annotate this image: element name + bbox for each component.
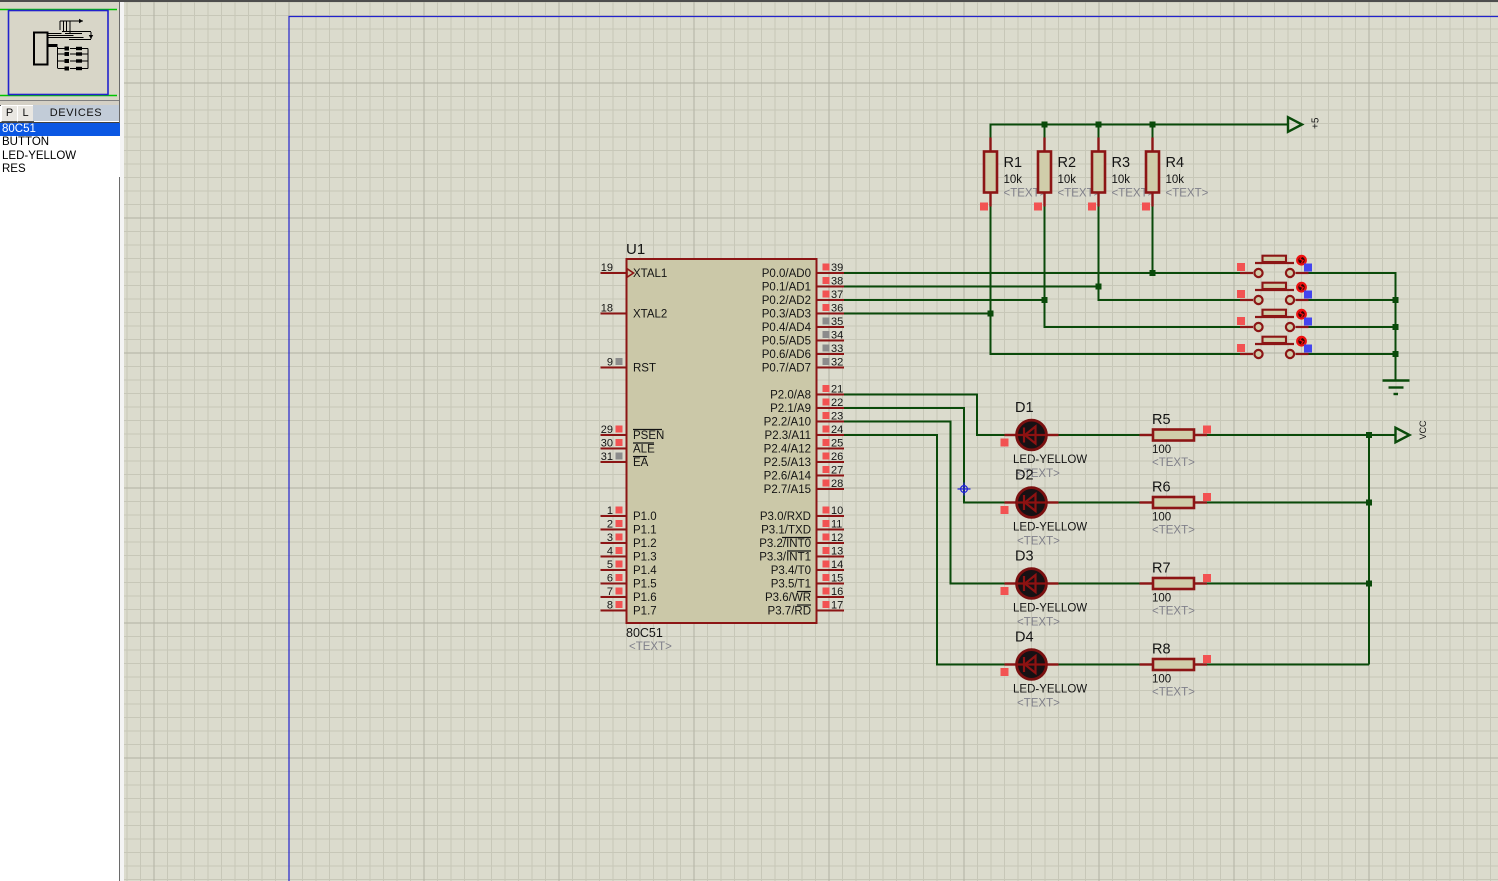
pin 26 marker square	[823, 453, 830, 460]
svg-text:P0.2/AD2: P0.2/AD2	[762, 295, 811, 307]
resistor R6	[1140, 497, 1208, 508]
svg-text:10k: 10k	[1166, 174, 1185, 186]
svg-text:P2.7/A15: P2.7/A15	[764, 484, 811, 496]
wire button3 output to ground bus	[1309, 326, 1396, 328]
svg-text:38: 38	[831, 276, 843, 288]
resistor R2	[1038, 138, 1051, 207]
LED D3	[1005, 569, 1059, 599]
pin 13 marker square	[823, 547, 830, 554]
pin 31 (EA) stub	[601, 461, 627, 463]
resistor R6 origin marker	[1203, 493, 1211, 501]
pin 29 marker square	[616, 426, 623, 433]
pin 21 (P2.0/A8) stub	[817, 394, 845, 396]
pin 4 (P1.3) stub	[601, 556, 627, 558]
resistor R3	[1092, 138, 1105, 207]
wire D1 to R5	[1059, 434, 1140, 436]
pin 26 (P2.5/A13) stub	[817, 461, 845, 463]
wire P0.2 pin37 to R2 column	[844, 299, 1045, 301]
svg-text:R7: R7	[1152, 561, 1171, 577]
button 4	[1240, 337, 1309, 358]
junction at (990.5,313.5)	[988, 311, 994, 317]
pin 30 marker square	[616, 439, 623, 446]
junction at (1395.5,354)	[1393, 351, 1399, 357]
pin 23 (P2.2/A10) stub	[817, 421, 845, 423]
svg-text:P3.2/INT0: P3.2/INT0	[759, 538, 811, 550]
svg-text:13: 13	[831, 546, 843, 558]
LED D1	[1005, 420, 1059, 450]
button 3 origin marker	[1237, 317, 1245, 325]
svg-text:VCC: VCC	[1418, 420, 1428, 440]
svg-text:2: 2	[607, 519, 613, 531]
svg-text:3: 3	[607, 532, 613, 544]
junction at (1395.5,300)	[1393, 297, 1399, 303]
resistor R8	[1140, 659, 1208, 670]
LED D2 origin marker	[1001, 506, 1009, 514]
svg-text:P1.4: P1.4	[633, 565, 657, 577]
button 2 node marker (blue)	[1304, 291, 1312, 299]
svg-text:30: 30	[601, 438, 613, 450]
pin 2 (P1.1) stub	[601, 529, 627, 531]
pin 34 marker square	[823, 331, 830, 338]
pin 29 (PSEN) stub	[601, 434, 627, 436]
svg-text:XTAL2: XTAL2	[633, 309, 667, 321]
wire D4 to R8	[1059, 664, 1140, 666]
pin 39 (P0.0/AD0) stub	[817, 272, 845, 274]
svg-text:6: 6	[607, 573, 613, 585]
svg-text:<TEXT>: <TEXT>	[1152, 457, 1195, 469]
svg-text:<TEXT>: <TEXT>	[1017, 698, 1060, 710]
pin 24 marker square	[823, 426, 830, 433]
wire VCC bus to VCC arrow	[1369, 434, 1396, 436]
pin 17 (P3.7/RD) stub	[817, 610, 845, 612]
svg-text:D3: D3	[1015, 549, 1034, 565]
svg-text:XTAL1: XTAL1	[633, 268, 667, 280]
svg-text:11: 11	[831, 519, 842, 531]
button 2 actuator star	[1297, 283, 1306, 292]
pin 16 marker square	[823, 588, 830, 595]
pin 11 (P3.1/TXD) stub	[817, 529, 845, 531]
wire button2 output to ground bus	[1309, 299, 1396, 301]
pin 16 (P3.6/WR) stub	[817, 596, 845, 598]
pin 9 marker square	[616, 358, 623, 365]
device list: LED-YELLOW	[0, 150, 121, 163]
svg-text:P1.2: P1.2	[633, 538, 657, 550]
svg-text:39: 39	[831, 262, 843, 274]
svg-text:P3.3/INT1: P3.3/INT1	[759, 552, 811, 564]
svg-text:P3.7/RD: P3.7/RD	[768, 606, 811, 618]
resistor R4 origin marker	[1142, 203, 1150, 211]
schematic overview preview window	[0, 2, 119, 100]
pin 18 (XTAL2) stub	[601, 313, 627, 315]
editor crosshair cursor	[958, 483, 971, 496]
svg-text:31: 31	[601, 451, 613, 463]
resistor R1	[984, 138, 997, 207]
svg-text:P2.4/A12: P2.4/A12	[764, 444, 811, 456]
svg-text:28: 28	[831, 478, 843, 490]
svg-text:37: 37	[831, 289, 843, 301]
svg-text:P0.6/AD6: P0.6/AD6	[762, 349, 811, 361]
pin 31 marker square	[616, 453, 623, 460]
svg-text:25: 25	[831, 438, 843, 450]
svg-text:<TEXT>: <TEXT>	[1152, 687, 1195, 699]
wire P0.0 pin39 to button1	[844, 272, 1240, 274]
device list: BUTTON	[0, 136, 121, 149]
pin 39 marker square	[823, 264, 830, 271]
wire D2 to R6	[1059, 502, 1140, 504]
wire P2.1 pin22 to D2	[844, 408, 1005, 503]
svg-text:R1: R1	[1004, 155, 1023, 171]
junction at (1369,435)	[1366, 432, 1372, 438]
wire VCC bus vertical	[1368, 435, 1370, 665]
button 1 actuator star	[1297, 256, 1306, 265]
svg-text:P3.4/T0: P3.4/T0	[771, 565, 811, 577]
pin 17 marker square	[823, 601, 830, 608]
svg-text:100: 100	[1152, 593, 1171, 605]
pin 28 (P2.7/A15) stub	[817, 488, 845, 490]
svg-text:<TEXT>: <TEXT>	[1152, 525, 1195, 537]
wire R3 bottom to pin38 junction to button2 row	[1099, 207, 1241, 301]
pin 9 (RST) stub	[601, 367, 627, 369]
svg-text:P0.7/AD7: P0.7/AD7	[762, 363, 811, 375]
pin 34 (P0.5/AD5) stub	[817, 340, 845, 342]
svg-text:80C51: 80C51	[626, 626, 663, 640]
pin 33 (P0.6/AD6) stub	[817, 353, 845, 355]
svg-text:100: 100	[1152, 444, 1171, 456]
resistor R1 origin marker	[980, 203, 988, 211]
button 2 origin marker	[1237, 290, 1245, 298]
pin 5 marker square	[616, 561, 623, 568]
pin 1 (P1.0) stub	[601, 515, 627, 517]
junction at (1098.5,286.5)	[1096, 284, 1102, 290]
svg-text:21: 21	[831, 384, 843, 396]
L button	[17, 105, 34, 122]
P button	[1, 105, 18, 122]
LED D1 origin marker	[1001, 439, 1009, 447]
svg-text:12: 12	[831, 532, 843, 544]
wire R5 to VCC bus	[1207, 434, 1369, 436]
resistor R5 origin marker	[1203, 426, 1211, 434]
pin 10 (P3.0/RXD) stub	[817, 515, 845, 517]
svg-text:P2.3/A11: P2.3/A11	[765, 430, 811, 442]
svg-text:R6: R6	[1152, 480, 1171, 496]
svg-text:10k: 10k	[1058, 174, 1077, 186]
LED D4	[1005, 650, 1059, 680]
resistor R7	[1140, 578, 1208, 589]
svg-text:7: 7	[607, 586, 613, 598]
wire R6 to VCC bus	[1207, 502, 1369, 504]
wire R2 bottom to pin37 junction to button3 row	[1045, 207, 1241, 328]
svg-text:24: 24	[831, 424, 843, 436]
pin 5 (P1.4) stub	[601, 569, 627, 571]
preview blue sheet frame	[9, 11, 109, 95]
svg-text:P1.0: P1.0	[633, 511, 657, 523]
pin 1 marker square	[616, 507, 623, 514]
power symbol VCC	[1396, 428, 1410, 443]
pin 12 marker square	[823, 534, 830, 541]
svg-text:14: 14	[831, 559, 843, 571]
svg-text:D4: D4	[1015, 630, 1034, 646]
svg-text:P0.4/AD4: P0.4/AD4	[762, 322, 812, 334]
device list: RES	[0, 163, 121, 176]
button 1 origin marker	[1237, 263, 1245, 271]
resistor R2 origin marker	[1034, 203, 1042, 211]
pin 3 marker square	[616, 534, 623, 541]
pin 35 marker square	[823, 318, 830, 325]
pin 15 marker square	[823, 574, 830, 581]
button 4 node marker (blue)	[1304, 345, 1312, 353]
svg-text:4: 4	[607, 546, 613, 558]
button 1 node marker (blue)	[1304, 264, 1312, 272]
wire P0.3 pin36 to R1 column	[844, 313, 991, 315]
button 4 origin marker	[1237, 344, 1245, 352]
left object selector panel	[0, 0, 120, 881]
pin 13 (P3.3/INT1) stub	[817, 556, 845, 558]
svg-text:LED-YELLOW: LED-YELLOW	[1013, 454, 1087, 466]
svg-text:P3.6/WR: P3.6/WR	[765, 592, 811, 604]
pin 23 marker square	[823, 412, 830, 419]
wire R1 bottom to pin36 junction to button4 row	[991, 207, 1241, 355]
svg-text:LED-YELLOW: LED-YELLOW	[1013, 522, 1087, 534]
pin 25 (P2.4/A12) stub	[817, 448, 845, 450]
LED D2	[1005, 488, 1059, 518]
pin 14 marker square	[823, 561, 830, 568]
pin 27 marker square	[823, 466, 830, 473]
pin 6 (P1.5) stub	[601, 583, 627, 585]
pin 15 (P3.5/T1) stub	[817, 583, 845, 585]
pin 14 (P3.4/T0) stub	[817, 569, 845, 571]
junction at (1098.5,124.5)	[1096, 122, 1102, 128]
button 1	[1240, 256, 1309, 277]
button 4 actuator star	[1297, 337, 1306, 346]
button 3 node marker (blue)	[1304, 318, 1312, 326]
svg-text:P1.1: P1.1	[633, 525, 657, 537]
pin 32 (P0.7/AD7) stub	[817, 367, 845, 369]
svg-text:<TEXT>: <TEXT>	[1152, 606, 1195, 618]
svg-text:100: 100	[1152, 512, 1171, 524]
resistor R5	[1140, 430, 1208, 441]
svg-text:U1: U1	[626, 241, 645, 258]
resistor R3 origin marker	[1088, 203, 1096, 211]
wire P2.0 pin21 to D1	[844, 395, 1005, 436]
pin 22 (P2.1/A9) stub	[817, 407, 845, 409]
svg-text:10k: 10k	[1112, 174, 1131, 186]
pin 6 marker square	[616, 574, 623, 581]
svg-text:35: 35	[831, 316, 843, 328]
pin 28 marker square	[823, 480, 830, 487]
svg-text:<TEXT>: <TEXT>	[629, 641, 672, 653]
pin 30 (ALE) stub	[601, 448, 627, 450]
svg-text:LED-YELLOW: LED-YELLOW	[1013, 684, 1087, 696]
pin 3 (P1.2) stub	[601, 542, 627, 544]
svg-text:23: 23	[831, 411, 843, 423]
pin 2 marker square	[616, 520, 623, 527]
svg-text:19: 19	[601, 262, 613, 274]
svg-text:P3.0/RXD: P3.0/RXD	[760, 511, 811, 523]
wire R3 top stub	[1098, 125, 1100, 138]
svg-text:9: 9	[607, 357, 613, 369]
svg-text:17: 17	[831, 600, 843, 612]
pin 35 (P0.4/AD4) stub	[817, 326, 845, 328]
pin 22 marker square	[823, 399, 830, 406]
wire D3 to R7	[1059, 583, 1140, 585]
svg-text:LED-YELLOW: LED-YELLOW	[1013, 603, 1087, 615]
pin 12 (P3.2/INT0) stub	[817, 542, 845, 544]
pin 11 marker square	[823, 520, 830, 527]
svg-text:R3: R3	[1112, 155, 1131, 171]
junction at (1044.5,124.5)	[1042, 122, 1048, 128]
pin 38 (P0.1/AD1) stub	[817, 286, 845, 288]
svg-text:P3.5/T1: P3.5/T1	[771, 579, 811, 591]
wire P2.2 pin23 to D3	[844, 422, 1005, 584]
junction at (1044.5,300)	[1042, 297, 1048, 303]
wire R4 bottom to pin39 junction	[1152, 207, 1154, 274]
wire R7 to VCC bus	[1207, 583, 1369, 585]
sheet border (blue)	[289, 17, 1498, 881]
resistor R7 origin marker	[1203, 574, 1211, 582]
svg-text:33: 33	[831, 343, 843, 355]
LED D3 origin marker	[1001, 587, 1009, 595]
wire R2 top stub	[1044, 125, 1046, 138]
svg-text:<TEXT>: <TEXT>	[1017, 536, 1060, 548]
svg-text:15: 15	[831, 573, 843, 585]
pin 36 (P0.3/AD3) stub	[817, 313, 845, 315]
svg-text:22: 22	[831, 397, 843, 409]
ground symbol	[1383, 381, 1410, 395]
junction at (1395.5,327)	[1393, 324, 1399, 330]
svg-text:5: 5	[607, 559, 613, 571]
pin 19 clock input arrow	[627, 269, 634, 278]
pin 4 marker square	[616, 547, 623, 554]
junction at (1152.5,273)	[1150, 270, 1156, 276]
svg-text:10k: 10k	[1004, 174, 1023, 186]
svg-text:P1.7: P1.7	[633, 606, 657, 618]
svg-text:P0.1/AD1: P0.1/AD1	[762, 282, 811, 294]
button 2	[1240, 283, 1309, 304]
junction at (1369,502.5)	[1366, 500, 1372, 506]
svg-text:18: 18	[601, 303, 613, 315]
pin 8 (P1.7) stub	[601, 610, 627, 612]
svg-text:26: 26	[831, 451, 843, 463]
svg-text:P2.6/A14: P2.6/A14	[764, 471, 812, 483]
preview green margin lines	[0, 9, 117, 11]
power symbol +5	[1288, 117, 1302, 132]
wire R8 to VCC bus	[1207, 664, 1369, 666]
svg-text:36: 36	[831, 303, 843, 315]
svg-text:10: 10	[831, 505, 843, 517]
pin 7 marker square	[616, 588, 623, 595]
svg-text:P2.1/A9: P2.1/A9	[770, 403, 811, 415]
pin 36 marker square	[823, 304, 830, 311]
svg-text:1: 1	[607, 505, 613, 517]
pin 25 marker square	[823, 439, 830, 446]
svg-text:P0.3/AD3: P0.3/AD3	[762, 309, 811, 321]
pin 27 (P2.6/A14) stub	[817, 475, 845, 477]
resistor R8 origin marker	[1203, 655, 1211, 663]
svg-text:27: 27	[831, 465, 843, 477]
junction at (1152.5,124.5)	[1150, 122, 1156, 128]
svg-text:P0.5/AD5: P0.5/AD5	[762, 336, 811, 348]
svg-text:RST: RST	[633, 363, 656, 375]
wire +5V rail with R1 top stub	[991, 125, 1289, 138]
button 3	[1240, 310, 1309, 331]
svg-text:P1.6: P1.6	[633, 592, 657, 604]
svg-text:<TEXT>: <TEXT>	[1166, 188, 1209, 200]
svg-text:P2.5/A13: P2.5/A13	[764, 457, 811, 469]
pin 21 marker square	[823, 385, 830, 392]
device list: 80C51 selected	[0, 123, 121, 136]
svg-text:32: 32	[831, 357, 843, 369]
svg-text:EA: EA	[633, 457, 649, 469]
svg-text:16: 16	[831, 586, 843, 598]
pin 7 (P1.6) stub	[601, 596, 627, 598]
preview mini schematic	[34, 21, 91, 69]
svg-text:100: 100	[1152, 674, 1171, 686]
DEVICES header	[33, 105, 119, 121]
svg-text:D2: D2	[1015, 468, 1034, 484]
pin 19 (XTAL1) stub	[601, 272, 627, 274]
svg-text:8: 8	[607, 600, 613, 612]
pin 8 marker square	[616, 601, 623, 608]
pin 37 (P0.2/AD2) stub	[817, 299, 845, 301]
resistor R4	[1146, 138, 1159, 207]
svg-text:P3.1/TXD: P3.1/TXD	[761, 525, 811, 537]
junction at (1369,583.5)	[1366, 581, 1372, 587]
pin 24 (P2.3/A11) stub	[817, 434, 845, 436]
svg-text:R4: R4	[1166, 155, 1185, 171]
svg-text:P2.0/A8: P2.0/A8	[770, 390, 811, 402]
pin 10 marker square	[823, 507, 830, 514]
wire R4 top stub	[1152, 125, 1154, 138]
svg-text:R5: R5	[1152, 412, 1171, 428]
LED D4 origin marker	[1001, 668, 1009, 676]
svg-text:P2.2/A10: P2.2/A10	[764, 417, 811, 429]
pin 37 marker square	[823, 291, 830, 298]
svg-text:D1: D1	[1015, 400, 1034, 416]
svg-text:29: 29	[601, 424, 613, 436]
chip U1 80C51 body	[627, 259, 817, 623]
wire P0.1 pin38 to R3 column	[844, 286, 1099, 288]
pin 33 marker square	[823, 345, 830, 352]
svg-text:<TEXT>: <TEXT>	[1017, 617, 1060, 629]
pin 32 marker square	[823, 358, 830, 365]
svg-text:PSEN: PSEN	[633, 430, 664, 442]
svg-text:P1.3: P1.3	[633, 552, 657, 564]
wire button1 output to ground bus	[1309, 273, 1396, 381]
wire P2.3 pin24 to D4	[844, 435, 1005, 665]
button 3 actuator star	[1297, 310, 1306, 319]
svg-text:+5: +5	[1311, 117, 1322, 129]
svg-text:ALE: ALE	[633, 444, 655, 456]
svg-text:P1.5: P1.5	[633, 579, 657, 591]
svg-text:R2: R2	[1058, 155, 1077, 171]
svg-text:34: 34	[831, 330, 843, 342]
svg-text:R8: R8	[1152, 642, 1171, 658]
svg-text:P0.0/AD0: P0.0/AD0	[762, 268, 811, 280]
pin 38 marker square	[823, 277, 830, 284]
wire button4 output to ground bus	[1309, 353, 1396, 355]
